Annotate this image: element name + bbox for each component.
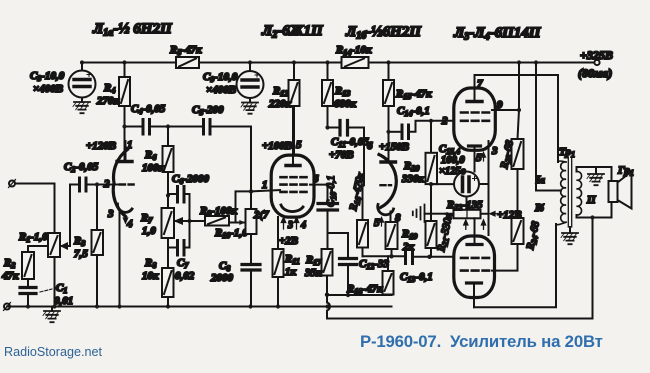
svg-text:1: 1	[127, 139, 133, 151]
svg-text:+70В: +70В	[329, 149, 354, 161]
svg-text:(80ма): (80ма)	[578, 66, 612, 80]
cathode pin8 L1b	[378, 205, 394, 215]
capacitor C9	[249, 63, 251, 72]
wire screen L4 to R24	[492, 244, 518, 271]
wire R1 wiper to C2	[70, 185, 79, 247]
ground under core	[569, 227, 571, 233]
transformer Tr1 core	[568, 157, 571, 227]
resistor R13	[327, 63, 329, 81]
svg-text:Л1б-½6Н2П: Л1б-½6Н2П	[345, 24, 422, 42]
capacitor C14	[389, 131, 400, 133]
svg-text:R5-47к: R5-47к	[169, 44, 202, 57]
capacitor C4	[125, 126, 142, 128]
svg-text:220к: 220к	[268, 98, 292, 110]
svg-text:680к: 680к	[334, 98, 357, 110]
resistor R22	[466, 197, 468, 210]
pins 3,4 filament arrows L2	[281, 218, 285, 230]
svg-text:R22-135: R22-135	[446, 199, 483, 212]
wire screen bus top	[518, 63, 520, 140]
svg-text:С9-10,0: С9-10,0	[203, 71, 238, 84]
svg-text:Л2-6Ж1П: Л2-6Ж1П	[261, 23, 324, 41]
ground C9	[241, 103, 258, 114]
ground symbol main	[51, 307, 53, 312]
label +12V arrow	[490, 212, 497, 216]
svg-text:+325В: +325В	[580, 48, 613, 62]
svg-text:С2-0,05: С2-0,05	[64, 161, 99, 174]
wire CT to rail	[536, 63, 561, 191]
grid rows L2	[281, 177, 307, 192]
svg-text:1к: 1к	[285, 266, 297, 278]
svg-text:R19: R19	[401, 228, 417, 241]
resistor R24	[517, 210, 519, 218]
wire hop over rail	[327, 295, 330, 319]
resistor R21	[426, 221, 437, 248]
wire L4 anode to transformer bottom	[474, 224, 556, 307]
resistor R2	[28, 246, 48, 252]
node +325V terminal	[594, 60, 599, 65]
svg-text:С5-200: С5-200	[192, 104, 224, 117]
svg-text:С4-0,05: С4-0,05	[131, 103, 166, 116]
svg-text:7: 7	[357, 174, 363, 186]
svg-text:3: 3	[287, 220, 293, 231]
tube L4 6P14P	[454, 236, 495, 298]
svg-text:RadioStorage.net: RadioStorage.net	[4, 345, 103, 359]
svg-text:2: 2	[441, 115, 448, 127]
wire secondary bottom	[577, 201, 612, 218]
svg-text:3: 3	[491, 145, 498, 157]
tube L2 6Zh1P	[271, 155, 314, 217]
svg-text:1: 1	[262, 179, 268, 191]
svg-text:3: 3	[107, 208, 114, 220]
svg-text:6: 6	[367, 140, 373, 152]
svg-text:270к: 270к	[96, 95, 120, 107]
pin5 filament arrow L3	[482, 153, 486, 162]
svg-text:+2В: +2В	[279, 235, 298, 247]
grid pin2 L1a	[120, 183, 134, 185]
wire anode line L3 to transformer top	[475, 75, 559, 162]
capacitor C11	[328, 127, 338, 129]
svg-text:R9-100к: R9-100к	[199, 205, 238, 218]
svg-text:9: 9	[497, 99, 503, 111]
svg-text:Р-1960-07. Усилитель на 20Вт: Р-1960-07. Усилитель на 20Вт	[360, 332, 603, 351]
svg-text:2: 2	[103, 178, 110, 190]
anode pin5 L2	[292, 106, 294, 165]
capacitor C1	[20, 288, 36, 294]
svg-text:4: 4	[126, 218, 133, 230]
tube L1b half 6N2P	[379, 155, 396, 208]
anode bar L3	[467, 100, 482, 103]
svg-text:R4: R4	[103, 82, 115, 95]
resistor R3	[96, 185, 98, 231]
svg-text:С3-10,0: С3-10,0	[30, 70, 65, 83]
capacitor C7	[167, 238, 169, 268]
resistor R10	[250, 127, 252, 210]
wire input to R1	[15, 184, 55, 234]
svg-text:47к: 47к	[1, 270, 19, 282]
anode pin1 L1a	[125, 141, 127, 161]
svg-text:R12: R12	[272, 85, 288, 98]
svg-text:6: 6	[313, 173, 319, 185]
capacitor C10	[327, 185, 329, 202]
grid pin7 L1b	[381, 184, 392, 186]
resistor R6	[167, 127, 169, 147]
cathode pin3 L1a	[117, 204, 132, 212]
resistor R7 potentiometer	[162, 208, 175, 238]
node rail junction dots	[80, 60, 538, 64]
svg-text:R10-1,0: R10-1,0	[214, 227, 248, 240]
svg-text:Гр1: Гр1	[617, 165, 634, 178]
wire R9 to R10 node	[229, 191, 251, 222]
capacitor C6	[168, 193, 176, 195]
svg-text:5: 5	[374, 217, 380, 229]
speaker Gr1	[609, 181, 618, 202]
wire NFB bottom line	[327, 318, 593, 320]
cathode L4 top	[467, 243, 482, 246]
svg-text:R20: R20	[403, 160, 419, 173]
transformer secondary winding	[577, 171, 582, 215]
svg-text:R1-1,0: R1-1,0	[18, 231, 48, 244]
svg-text:4: 4	[300, 220, 306, 231]
svg-text:R2: R2	[3, 257, 15, 270]
svg-text:Тр1: Тр1	[559, 146, 575, 159]
tube L3 6P14P	[454, 88, 496, 150]
resistor R14	[342, 57, 369, 68]
wire C15 to suppressor line	[479, 183, 489, 185]
svg-text:Iб: Iб	[534, 202, 544, 214]
capacitor C2	[80, 178, 87, 191]
resistor R23	[512, 139, 524, 169]
svg-text:II: II	[586, 194, 596, 206]
wire ground rail	[7, 306, 392, 308]
resistor R19	[386, 222, 398, 249]
resistor R17	[322, 249, 333, 276]
tube L1a half 6N2P	[113, 150, 127, 217]
svg-text:R6: R6	[144, 149, 156, 162]
capacitor C3	[81, 63, 83, 71]
svg-text:×400В: ×400В	[33, 83, 63, 95]
cathode arc L2	[281, 205, 303, 212]
svg-text:2(7: 2(7	[253, 209, 269, 221]
svg-text:R13: R13	[334, 85, 350, 98]
svg-text:Л3-Л4-6П14П: Л3-Л4-6П14П	[453, 25, 542, 43]
grid rows L4	[461, 258, 489, 271]
ground C3	[73, 102, 90, 113]
anode bar L4 bottom	[467, 281, 482, 284]
svg-text:5: 5	[296, 139, 302, 151]
svg-text:+150В: +150В	[379, 141, 409, 153]
capacitor C8	[242, 265, 260, 271]
svg-text:R3: R3	[73, 235, 85, 248]
wire grid1 L2 from R10 node	[251, 190, 280, 191]
svg-text:100,0: 100,0	[441, 155, 465, 166]
svg-text:0,01: 0,01	[54, 295, 73, 307]
wire NFB node line	[327, 294, 392, 296]
transformer primary winding	[561, 162, 566, 222]
svg-text:С13-0,1: С13-0,1	[400, 271, 433, 284]
svg-text:С1: С1	[56, 282, 67, 295]
svg-text:С6-2000: С6-2000	[172, 173, 210, 186]
svg-text:×400В: ×400В	[206, 84, 236, 96]
wire secondary top to ground and speaker	[577, 167, 612, 184]
resistor R15	[388, 63, 390, 81]
svg-text:R7: R7	[140, 212, 153, 225]
wire screen pin9 L3	[492, 109, 519, 111]
resistor R12	[293, 63, 295, 81]
svg-text:1,0: 1,0	[142, 225, 156, 237]
svg-text:×125в: ×125в	[439, 166, 466, 177]
cathode L3	[469, 144, 481, 147]
node input terminal	[9, 181, 15, 187]
svg-text:35к: 35к	[304, 267, 322, 279]
ground at grid-leak midpoint (sideways)	[425, 213, 432, 215]
svg-text:С12-33: С12-33	[359, 258, 390, 271]
svg-text:R8: R8	[144, 257, 156, 270]
capacitor C13	[406, 250, 413, 264]
resistor R1 potentiometer	[48, 233, 60, 257]
svg-text:R17: R17	[305, 254, 322, 267]
resistor R9	[205, 216, 229, 226]
resistor R8	[162, 268, 174, 297]
svg-text:R14-10к: R14-10к	[335, 44, 372, 57]
wire suppressor tie line	[488, 141, 490, 235]
svg-text:330к: 330к	[401, 173, 425, 185]
svg-text:С10-0,1: С10-0,1	[326, 175, 338, 207]
pin4 filament arrow L1a	[123, 215, 127, 223]
capacitor C5	[204, 120, 211, 135]
svg-text:R15-47к: R15-47к	[395, 88, 432, 101]
pin5 filament arrow L1b	[380, 218, 384, 227]
wire B+ rail top	[82, 62, 594, 64]
wire NFB from secondary	[592, 218, 594, 319]
resistor R16	[362, 185, 364, 220]
svg-text:2000: 2000	[210, 272, 234, 284]
svg-text:С7: С7	[177, 257, 189, 270]
wire R16 R19 C13 junction line	[363, 255, 405, 257]
wire R20 bottom to C15 node	[430, 184, 432, 221]
capacitor C12	[328, 233, 349, 257]
svg-text:С14-0,1: С14-0,1	[397, 105, 430, 118]
svg-text:+100В: +100В	[262, 140, 292, 152]
resistor R11	[277, 217, 279, 249]
svg-text:Л1а-½ 6Н2П: Л1а-½ 6Н2П	[92, 21, 173, 39]
resistor R18	[387, 256, 389, 271]
svg-text:R18-47к: R18-47к	[346, 283, 383, 296]
pins filament arrows L4	[464, 220, 468, 229]
capacitor C15,16 electrolytic	[454, 172, 479, 197]
svg-text:100к: 100к	[142, 162, 165, 174]
resistor R20	[430, 121, 432, 153]
svg-text:0,02: 0,02	[175, 270, 195, 282]
resistor R5	[176, 57, 199, 68]
grid rows L3	[461, 113, 489, 121]
anode pin6 L1b	[388, 106, 390, 161]
resistor R4	[124, 63, 126, 78]
svg-text:+120В: +120В	[86, 140, 116, 152]
svg-text:5: 5	[476, 152, 482, 164]
wire screen pin6 L2	[310, 184, 328, 186]
svg-text:R24-68: R24-68	[525, 220, 543, 252]
svg-text:10к: 10к	[142, 270, 159, 282]
svg-text:7,5: 7,5	[74, 248, 88, 260]
svg-text:С11-0,05: С11-0,05	[331, 136, 369, 149]
svg-text:R11: R11	[284, 253, 300, 266]
